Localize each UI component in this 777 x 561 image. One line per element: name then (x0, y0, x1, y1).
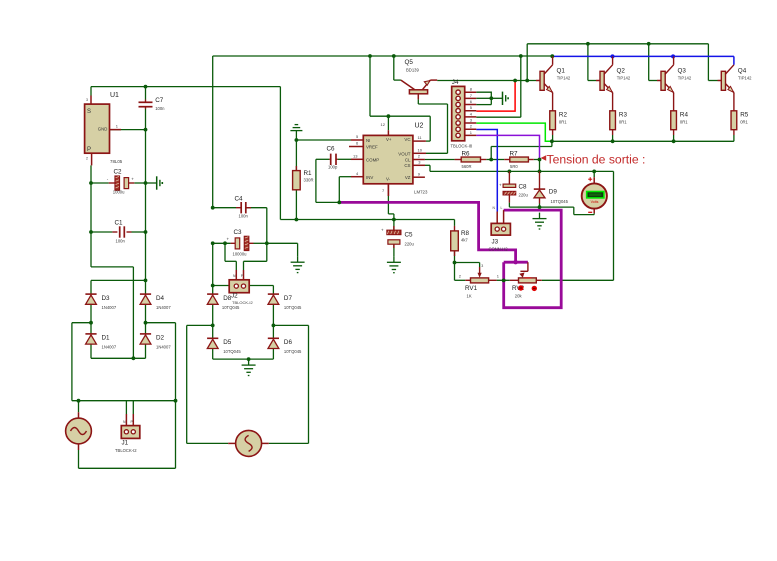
svg-text:1N4007: 1N4007 (156, 345, 171, 350)
svg-text:LM723: LM723 (414, 190, 428, 195)
svg-text:C3: C3 (234, 229, 243, 236)
svg-text:TBLOCK-I2: TBLOCK-I2 (115, 448, 137, 453)
svg-text:R5: R5 (740, 111, 749, 118)
svg-text:+: + (131, 176, 134, 181)
svg-text:330R: 330R (304, 178, 314, 183)
svg-text:+: + (381, 228, 384, 233)
svg-text:D3: D3 (102, 295, 111, 302)
svg-text:Q1: Q1 (557, 67, 566, 74)
svg-text:+: + (499, 183, 502, 188)
svg-text:100n: 100n (239, 214, 249, 219)
svg-text:NI: NI (366, 138, 370, 143)
svg-text:Q3: Q3 (678, 67, 687, 74)
svg-text:C8: C8 (519, 184, 528, 191)
svg-text:20k: 20k (515, 293, 523, 298)
svg-text:5R0: 5R0 (510, 164, 518, 169)
svg-text:R1: R1 (304, 170, 313, 177)
svg-text:C5: C5 (405, 232, 414, 239)
svg-text:VC: VC (404, 137, 410, 142)
svg-text:D4: D4 (156, 295, 165, 302)
svg-text:10TQ045: 10TQ045 (284, 305, 302, 310)
svg-text:U1: U1 (110, 92, 119, 99)
svg-text:0R1: 0R1 (740, 119, 748, 124)
svg-text:C7: C7 (155, 97, 164, 104)
svg-text:D8: D8 (223, 295, 232, 302)
svg-text:V+: V+ (386, 137, 392, 142)
svg-text:Q4: Q4 (738, 67, 747, 74)
svg-text:1K: 1K (467, 293, 472, 298)
svg-text:J4: J4 (452, 79, 459, 86)
svg-text:TIP142: TIP142 (617, 76, 631, 81)
svg-text:P: P (87, 147, 91, 153)
svg-text:C1: C1 (115, 220, 124, 227)
svg-text:1N4007: 1N4007 (102, 345, 117, 350)
svg-text:BD139: BD139 (406, 68, 419, 73)
svg-text:TIP142: TIP142 (557, 76, 571, 81)
svg-text:10TQ045: 10TQ045 (222, 305, 240, 310)
svg-text:GND: GND (98, 126, 108, 131)
svg-text:2: 2 (86, 157, 88, 161)
svg-text:220u: 220u (405, 242, 415, 247)
svg-text:560R: 560R (462, 164, 472, 169)
svg-text:J3: J3 (492, 239, 499, 246)
svg-text:100n: 100n (155, 106, 165, 111)
svg-text:J2: J2 (231, 293, 238, 300)
svg-text:TBLOCK-I8: TBLOCK-I8 (451, 144, 473, 149)
svg-text:D7: D7 (284, 295, 293, 302)
svg-text:COMP: COMP (366, 157, 379, 162)
svg-text:R3: R3 (619, 111, 628, 118)
svg-text:Q2: Q2 (617, 67, 626, 74)
svg-text:0R1: 0R1 (680, 119, 688, 124)
svg-text:TIP142: TIP142 (738, 76, 752, 81)
svg-text:10TQ045: 10TQ045 (223, 349, 241, 354)
svg-text:D1: D1 (102, 335, 111, 342)
svg-text:10: 10 (418, 148, 423, 153)
svg-text:C4: C4 (235, 196, 244, 203)
svg-text:1N4007: 1N4007 (102, 305, 117, 310)
svg-text:Tension de sortie :: Tension de sortie : (547, 153, 646, 167)
svg-text:VZ: VZ (405, 175, 411, 180)
svg-text:RV1: RV1 (465, 285, 478, 292)
svg-text:10TQ045: 10TQ045 (284, 349, 302, 354)
svg-text:0R1: 0R1 (559, 119, 567, 124)
svg-text:0R1: 0R1 (619, 119, 627, 124)
svg-text:J1: J1 (122, 440, 129, 447)
svg-text:R2: R2 (559, 111, 568, 118)
svg-text:U2: U2 (415, 123, 424, 130)
svg-text:C2: C2 (114, 169, 123, 176)
svg-text:VREF: VREF (366, 145, 378, 150)
svg-text:INV: INV (366, 175, 373, 180)
svg-text:VOUT: VOUT (398, 151, 411, 156)
svg-text:10TQ045: 10TQ045 (551, 199, 569, 204)
svg-text:CS: CS (404, 163, 410, 168)
svg-text:CONN-H2: CONN-H2 (489, 247, 509, 252)
svg-text:D9: D9 (549, 189, 558, 196)
svg-text:D2: D2 (156, 335, 165, 342)
svg-text:R8: R8 (461, 230, 470, 237)
svg-text:3: 3 (86, 98, 88, 102)
svg-text:L: L (501, 206, 503, 210)
svg-text:TIP142: TIP142 (678, 76, 692, 81)
svg-text:CL: CL (405, 157, 411, 162)
svg-text:S: S (87, 109, 91, 115)
svg-text:R6: R6 (462, 150, 471, 157)
svg-text:V-: V- (386, 177, 391, 182)
svg-text:220u: 220u (519, 193, 529, 198)
svg-text:12: 12 (381, 122, 386, 127)
svg-text:10000u: 10000u (233, 252, 248, 257)
svg-text:100p: 100p (328, 165, 338, 170)
svg-text:78L05: 78L05 (110, 159, 123, 164)
svg-text:Q5: Q5 (405, 59, 414, 66)
svg-text:R4: R4 (680, 111, 689, 118)
svg-text:4k7: 4k7 (461, 238, 468, 243)
svg-text:13: 13 (353, 153, 358, 158)
svg-text:C6: C6 (327, 146, 336, 153)
svg-text:3: 3 (481, 264, 483, 268)
svg-text:D6: D6 (284, 339, 293, 346)
svg-text:R7: R7 (510, 150, 519, 157)
svg-text:+: + (227, 237, 230, 242)
svg-text:Volts: Volts (591, 200, 599, 204)
svg-text:1000u: 1000u (113, 190, 125, 195)
svg-text:D5: D5 (223, 339, 232, 346)
svg-text:1N4007: 1N4007 (156, 305, 171, 310)
svg-text:100n: 100n (116, 239, 126, 244)
